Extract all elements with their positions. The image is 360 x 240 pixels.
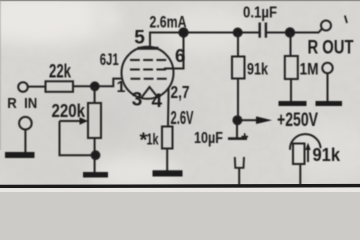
svg-text:2.6V: 2.6V	[171, 107, 194, 128]
wire 220k top lead	[94, 86, 96, 103]
capacitor 10uF positive plate	[236, 120, 238, 138]
grid row 1 (dashed)	[130, 59, 168, 61]
resistor 1M grid leak	[285, 56, 298, 79]
input terminal circle (R IN hot)	[18, 82, 28, 92]
wire 1k bottom lead	[166, 149, 168, 171]
wire 1M top lead	[290, 33, 292, 57]
node supply junction	[233, 116, 241, 124]
svg-text:1k: 1k	[147, 132, 159, 149]
node 91k rail junction	[234, 29, 242, 37]
node grid junction	[91, 82, 99, 90]
potentiometer 220k wiper arrow	[60, 120, 81, 122]
wire 22k to grid jog into tube pin 1	[73, 79, 123, 87]
svg-text:1: 1	[117, 79, 126, 96]
grid row 3 (dashed, control)	[131, 78, 170, 80]
wire +250V feed with arrow	[241, 119, 257, 121]
svg-text:91k: 91k	[247, 59, 268, 78]
ground output	[316, 101, 343, 106]
capacitor 10uF negative plate (open box)	[235, 157, 244, 168]
bottom scan border	[0, 184, 360, 188]
svg-text:91k: 91k	[313, 145, 341, 165]
resistor 1k cathode	[162, 127, 173, 149]
arrow on 91k	[307, 149, 309, 163]
plate bar	[138, 47, 159, 50]
plus sign 10uF	[242, 133, 249, 140]
wire 0.1uF to output	[266, 29, 322, 33]
resistor 22k	[46, 81, 74, 92]
wire cathode lead pins 2,7	[167, 88, 170, 127]
tube 6J1 envelope U1	[122, 47, 174, 99]
svg-text:22k: 22k	[49, 62, 71, 83]
node wiper-bottom junction	[92, 151, 100, 159]
svg-text:3: 3	[132, 90, 143, 111]
wire screen exit pin 6 to rail	[164, 33, 184, 69]
svg-text:220k: 220k	[52, 101, 86, 121]
output terminal circle (R OUT hot)	[321, 21, 331, 31]
grid row 2 (dashed, screen)	[130, 69, 166, 71]
node plate/screen rail junction	[179, 28, 187, 36]
output ground terminal circle	[322, 63, 332, 73]
ground 1k	[153, 170, 183, 176]
svg-text:6J1: 6J1	[100, 50, 119, 69]
wire input to 22k	[28, 86, 46, 88]
wire plate lead pin 5 to rail	[150, 33, 260, 49]
svg-text:0.1µF: 0.1µF	[243, 4, 277, 21]
potentiometer 220k body	[88, 103, 101, 138]
node 1M junction	[286, 28, 294, 36]
paper background	[0, 0, 360, 192]
wire wiper return	[60, 121, 96, 155]
input ground terminal circle	[19, 117, 32, 130]
svg-text:R IN: R IN	[7, 95, 37, 112]
resistor 91k bottom-right body	[293, 144, 305, 165]
resistor 91k plate load	[232, 57, 245, 79]
capacitor 0.1uF plates	[259, 23, 261, 38]
wire input ground stem	[24, 130, 26, 153]
svg-text:2.6mA: 2.6mA	[150, 13, 187, 32]
cathode filament	[142, 87, 158, 98]
top edge line	[0, 0, 360, 1]
svg-text:10µF: 10µF	[194, 130, 223, 147]
svg-text:2,7: 2,7	[171, 82, 190, 102]
wire 91k top lead	[237, 33, 239, 57]
wire 1M bottom lead	[290, 79, 292, 101]
svg-text:1M: 1M	[300, 60, 319, 79]
ground input	[5, 152, 35, 158]
wire 10uF to bottom	[238, 168, 240, 186]
ground 220k	[83, 172, 108, 178]
wire 91k bottom lead	[299, 164, 301, 186]
tick mark top right	[345, 16, 347, 24]
svg-text:5: 5	[134, 27, 145, 48]
wire output ground stem	[327, 73, 329, 101]
svg-text:R OUT: R OUT	[308, 37, 354, 58]
wire 91k bottom lead	[237, 79, 239, 121]
svg-text:4: 4	[152, 91, 163, 112]
svg-text:+250V: +250V	[277, 110, 318, 131]
wire 220k bottom lead	[94, 138, 96, 173]
svg-text:6: 6	[175, 46, 185, 66]
ground 1M	[279, 101, 307, 106]
adjustable 91k load (bottom right) arc	[290, 134, 321, 150]
